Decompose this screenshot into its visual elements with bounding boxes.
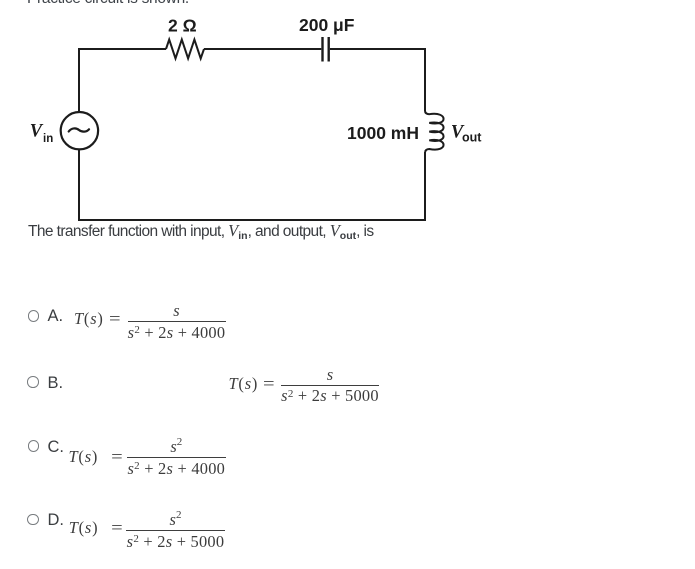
option C letter bbox=[48, 439, 65, 455]
capacitor C left plate bbox=[321, 37, 323, 62]
voltage source circle bbox=[61, 112, 98, 149]
sine tilde inside source bbox=[69, 128, 89, 131]
option A fraction bbox=[128, 304, 226, 340]
top partially cut-off sentence bbox=[27, 0, 189, 8]
wire between resistor and capacitor bbox=[204, 48, 321, 50]
option C fraction bbox=[127, 440, 226, 476]
option B T(s)= bbox=[229, 377, 273, 391]
svg-text:V: V bbox=[30, 122, 44, 142]
svg-text:1000 mH: 1000 mH bbox=[347, 123, 419, 143]
svg-text:in: in bbox=[43, 133, 53, 145]
option B letter bbox=[48, 375, 64, 391]
question text bbox=[28, 221, 374, 241]
svg-text:out: out bbox=[462, 130, 482, 144]
option D T(s)= bbox=[69, 521, 119, 535]
option A radio bbox=[28, 310, 40, 322]
svg-text:200 μF: 200 μF bbox=[299, 15, 355, 35]
wire capacitor to top-right corner down to inductor bbox=[330, 49, 425, 111]
resistor R (2 ohm) bbox=[166, 40, 204, 59]
svg-text:2 Ω: 2 Ω bbox=[168, 16, 197, 36]
option C T(s)= bbox=[69, 450, 119, 464]
option A letter bbox=[48, 308, 64, 324]
option B fraction bbox=[281, 368, 379, 404]
option B radio bbox=[27, 376, 39, 388]
option D fraction bbox=[126, 513, 225, 549]
capacitor C right plate bbox=[328, 37, 330, 62]
option D radio bbox=[27, 514, 39, 526]
wire left-top segment bbox=[79, 49, 166, 112]
inductor L (1000 mH) bbox=[425, 111, 444, 152]
option A T(s)= bbox=[74, 312, 118, 326]
circuit schematic bbox=[0, 0, 500, 245]
option C radio bbox=[28, 440, 40, 452]
option D letter bbox=[48, 512, 65, 528]
wire inductor to bottom, bottom wire, up to source bbox=[79, 149, 425, 220]
